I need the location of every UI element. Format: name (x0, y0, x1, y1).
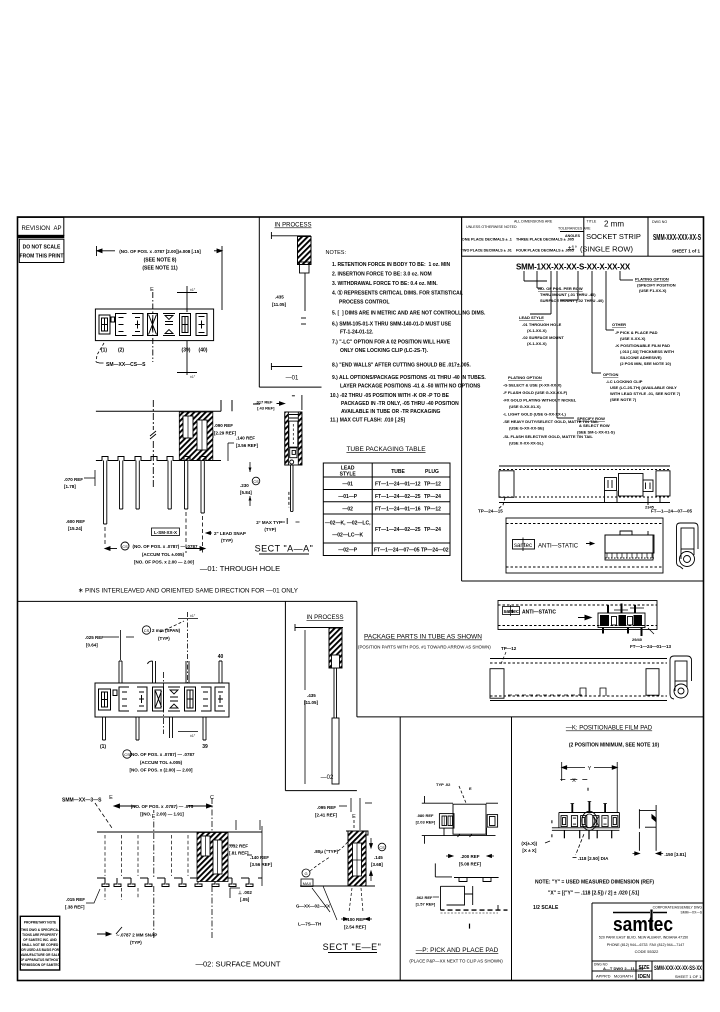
svg-text:.095 REF: .095 REF (317, 805, 336, 810)
-K: pins above (572, 802, 605, 813)
middle-left -02: bottom pins (103, 717, 207, 740)
svg-text:40: 40 (218, 654, 224, 660)
svg-text:(SPECIFY POSITION: (SPECIFY POSITION (637, 283, 676, 288)
svg-text:REVISION AP: REVISION AP (22, 226, 62, 232)
svg-text:2 mm: 2 mm (604, 220, 624, 229)
svg-text:FROM THIS PRINT: FROM THIS PRINT (20, 254, 64, 260)
svg-text:PHONE (812) 944—6733 FAX (812: PHONE (812) 944—6733 FAX (812) 944—7147 (607, 943, 685, 947)
-K: Y dim (562, 762, 618, 812)
svg-text:CS: CS (144, 628, 150, 633)
specify row label (564, 416, 615, 435)
svg-text:.090 REF: .090 REF (214, 423, 233, 428)
svg-text:TUBE PACKAGING TABLE: TUBE PACKAGING TABLE (346, 446, 426, 453)
svg-text:8.) "END WALLS" AFTER CUTTING: 8.) "END WALLS" AFTER CUTTING SHOULD BE … (332, 363, 471, 369)
samtec logo (613, 910, 673, 937)
svg-text:SECT "E—E": SECT "E—E" (323, 942, 382, 952)
svg-text:(TYP): (TYP) (158, 636, 170, 641)
svg-text:(39): (39) (182, 348, 191, 354)
surface mount view: hatched block (197, 833, 228, 882)
surface mount view: part label leader (95, 803, 112, 828)
middle-left -02: cells (99, 687, 226, 711)
svg-text:±1°: ±1° (568, 246, 578, 252)
svg-text:SIZE: SIZE (638, 965, 650, 971)
svg-text:X: X (572, 778, 576, 784)
svg-text:[2.41 REF]: [2.41 REF] (315, 813, 338, 818)
divider V5 (511, 717, 513, 981)
svg-text:ANTI—STATIC: ANTI—STATIC (522, 610, 556, 616)
svg-text:(USE X-XX-X): (USE X-XX-X) (620, 336, 646, 341)
lc option label (603, 372, 681, 402)
bottom title block (592, 903, 704, 981)
svg-text:IN PROCESS: IN PROCESS (306, 615, 343, 621)
svg-text:(.013 [.33] THICKNESS WITH: (.013 [.33] THICKNESS WITH (620, 349, 674, 354)
-K: side view (639, 805, 656, 851)
svg-text:OR USED AS BASIS FOR: OR USED AS BASIS FOR (21, 948, 60, 952)
svg-text:—02: —02 (321, 775, 334, 781)
svg-text:NOTE: "Y" = USED MEASURED DIME: NOTE: "Y" = USED MEASURED DIMENSION (REF… (535, 880, 654, 886)
svg-text:.435: .435 (275, 295, 284, 300)
in-process -01 panel (271, 223, 311, 382)
tube packaging table (323, 463, 450, 556)
svg-text:(NO. OF POS. x .0787) — .0787: (NO. OF POS. x .0787) — .0787 (132, 544, 198, 549)
svg-text:(2 POS MIN, SEE NOTE 10): (2 POS MIN, SEE NOTE 10) (620, 361, 672, 366)
svg-text:LEAD STYLE: LEAD STYLE (519, 315, 544, 320)
front view -01: hatched block (179, 412, 213, 461)
svg-text:(SEE NOTE 7): (SEE NOTE 7) (610, 397, 637, 402)
svg-text:520 PARK EAST BLVD. NEW ALBANY: 520 PARK EAST BLVD. NEW ALBANY, INDIANA … (599, 936, 688, 940)
middle-left -02: bottom angle cross (178, 731, 198, 733)
svg-text:(NO. OF POS. x .0787) — .075: (NO. OF POS. x .0787) — .075 (131, 804, 194, 809)
svg-text:PLATING OPTION: PLATING OPTION (508, 375, 542, 380)
front view -01: dashed pin lines below (105, 512, 203, 553)
svg-text:—02—LC—K: —02—LC—K (332, 533, 363, 539)
svg-text:ANGLES: ANGLES (565, 234, 581, 238)
svg-text:TP—24—02: TP—24—02 (421, 548, 449, 554)
svg-text:—02—P: —02—P (338, 548, 358, 554)
svg-text:SM—XX—CS—S: SM—XX—CS—S (106, 362, 146, 368)
svg-text:(40): (40) (199, 348, 208, 354)
-K: X dim (560, 778, 587, 780)
svg-text:—K: POSITIONABLE FILM PAD: —K: POSITIONABLE FILM PAD (566, 726, 653, 732)
surface mount view: centerlines (154, 798, 212, 940)
svg-text:DO NOT SCALE: DO NOT SCALE (23, 245, 61, 251)
tube drawing 3 with anti-static (498, 601, 657, 630)
svg-text:G: G (304, 871, 307, 876)
svg-text:.600 REF: .600 REF (66, 519, 85, 524)
svg-text:STYLE: STYLE (340, 472, 357, 478)
divider H2 (18, 600, 357, 602)
no of pos label (538, 286, 604, 303)
svg-text:(SEE SM-1-XX-01-S): (SEE SM-1-XX-01-S) (577, 430, 615, 435)
middle-left -02: top pins (119, 661, 222, 683)
svg-text:.230: .230 (240, 483, 249, 488)
svg-text:TIONS ARE PROPERTY: TIONS ARE PROPERTY (22, 933, 59, 937)
svg-text:SMM—XX—3—S: SMM—XX—3—S (62, 798, 102, 804)
sect E-E: right dim (370, 838, 373, 881)
svg-text:∗ PINS INTERLEAVED AND ORIENTE: ∗ PINS INTERLEAVED AND ORIENTED SAME DIR… (78, 588, 298, 595)
front view -01: lead snap label (206, 531, 212, 534)
svg-text:(SINGLE ROW): (SINGLE ROW) (580, 245, 633, 254)
-P panel: .200 dim (446, 854, 494, 857)
svg-text:WITH LEAD STYLE -01, SEE NOTE: WITH LEAD STYLE -01, SEE NOTE 7) (610, 391, 681, 396)
svg-text:.062 REF: .062 REF (416, 895, 433, 900)
middle-left -02: centerline (163, 672, 165, 734)
svg-text:SILICONE ADHESIVE): SILICONE ADHESIVE) (620, 355, 662, 360)
svg-text:NOTES:: NOTES: (326, 250, 347, 256)
svg-text:E: E (152, 814, 156, 820)
-K: left labels (551, 820, 553, 837)
-K: .150 dim (633, 852, 664, 855)
svg-text:(NO. OF POS. x .0787) — .0787: (NO. OF POS. x .0787) — .0787 (129, 752, 195, 757)
-K: cells (561, 816, 618, 827)
svg-text:[X ± X]: [X ± X] (522, 848, 536, 853)
plating option list (503, 375, 599, 446)
svg-text:[15.24]: [15.24] (68, 526, 83, 531)
svg-text:SECT "A—A": SECT "A—A" (255, 544, 314, 554)
svg-text:SURFACE MOUNT (-02 THRU -40): SURFACE MOUNT (-02 THRU -40) (540, 298, 604, 303)
-K: strip front view (552, 813, 620, 831)
svg-text:[3.56 REF]: [3.56 REF] (250, 862, 273, 867)
svg-text:.100 REF: .100 REF (346, 917, 365, 922)
svg-text:(TYP): (TYP) (221, 538, 233, 543)
surface mount view: body (97, 832, 262, 887)
svg-text:[.38 REF]: [.38 REF] (65, 905, 85, 910)
svg-text:-K POSITIONABLE FILM PAD: -K POSITIONABLE FILM PAD (615, 343, 670, 348)
svg-text:E: E (352, 814, 356, 820)
other option label (612, 322, 674, 366)
svg-text:PERMISSION OF SAMTEC: PERMISSION OF SAMTEC (20, 963, 60, 967)
svg-text:—01: —01 (286, 376, 299, 382)
svg-text:[5.84]: [5.84] (240, 490, 252, 495)
svg-text:THRU MOUNT (-01 THRU -40): THRU MOUNT (-01 THRU -40) (540, 292, 596, 297)
svg-text:OF SAMTEC INC. AND: OF SAMTEC INC. AND (23, 938, 57, 942)
svg-text:SHEET 1 OF 1: SHEET 1 OF 1 (675, 974, 702, 979)
svg-text:TP—12: TP—12 (424, 506, 441, 512)
svg-text:SOCKET STRIP: SOCKET STRIP (586, 232, 641, 241)
svg-text:7.) "-LC" OPTION FOR A 02 POSI: 7.) "-LC" OPTION FOR A 02 POSITION WILL … (332, 340, 451, 346)
svg-text:—02: SURFACE MOUNT: —02: SURFACE MOUNT (195, 960, 280, 969)
svg-text:THIS DWG & SPECIFICA-: THIS DWG & SPECIFICA- (21, 928, 59, 932)
svg-text:11.) MAX CUT FLASH: .010 [.25]: 11.) MAX CUT FLASH: .010 [.25] (330, 418, 405, 424)
in-process -02 panel content (295, 615, 344, 784)
svg-text:PACKAGED IN -TR ONLY, -05 THRU: PACKAGED IN -TR ONLY, -05 THRU -40 POSIT… (341, 401, 459, 407)
middle-left -02 top view: cs circle note (142, 626, 180, 641)
svg-text:& SELECT ROW: & SELECT ROW (579, 423, 610, 428)
proprietary note box (20, 916, 61, 970)
svg-text:-P PICK & PLACE PAD: -P PICK & PLACE PAD (615, 330, 658, 335)
svg-text:FT—1—24—02—25: FT—1—24—02—25 (375, 494, 421, 500)
lead style label (519, 315, 564, 346)
svg-text:(NO. OF POS. x .0787 [2.00])±.: (NO. OF POS. x .0787 [2.00])±.008 [.15] (119, 249, 201, 254)
svg-text:[.05]: [.05] (240, 897, 250, 902)
svg-text:PLUG: PLUG (425, 469, 439, 475)
front view -01: body bottom edge with notches (96, 457, 221, 461)
svg-text:[5.08 REF]: [5.08 REF] (459, 862, 482, 867)
svg-text:3. WITHDRAWAL FORCE TO BE: 0.4: 3. WITHDRAWAL FORCE TO BE: 0.4 oz. MIN. (332, 281, 438, 287)
svg-text:2 mm (SPAN): 2 mm (SPAN) (152, 628, 181, 633)
svg-text:Y: Y (588, 766, 592, 772)
svg-text:—01: THROUGH HOLE: —01: THROUGH HOLE (200, 564, 280, 573)
svg-text:IN PROCESS: IN PROCESS (274, 223, 311, 229)
svg-text:L-SM-XX-X: L-SM-XX-X (154, 530, 177, 535)
svg-text:OPTION: OPTION (603, 372, 618, 377)
svg-text:SPECIFY ROW: SPECIFY ROW (577, 416, 605, 421)
-K: film pad circle (582, 811, 597, 830)
dark connectors in tube 3 (598, 604, 645, 637)
surface mount view: snap note (97, 927, 122, 936)
svg-text:—02: —02 (342, 506, 353, 512)
svg-text:TITLE: TITLE (587, 220, 597, 224)
svg-text:NO. OF POS. PER ROW: NO. OF POS. PER ROW (538, 286, 583, 291)
tube drawing 4 (lower) (490, 659, 667, 701)
svg-text:UNLESS OTHERWISE NOTED: UNLESS OTHERWISE NOTED (466, 225, 517, 229)
svg-text:CODE 55322: CODE 55322 (635, 949, 660, 954)
tube drawing 1 (top right) (498, 466, 670, 509)
svg-text:TP—12: TP—12 (424, 482, 441, 488)
svg-text:±1°: ±1° (190, 614, 196, 618)
svg-text:.140 REF: .140 REF (250, 855, 269, 860)
svg-text:E: E (150, 287, 154, 293)
main border frame (18, 217, 704, 981)
svg-text:USE (LC-2S-TH) (AVAILABLE ONLY: USE (LC-2S-TH) (AVAILABLE ONLY (610, 385, 677, 390)
tube 4 end clip (670, 656, 692, 699)
svg-text:.435: .435 (307, 693, 316, 698)
svg-text:SHEET 1 of 1: SHEET 1 of 1 (672, 249, 701, 254)
svg-text:APPR'D McGRATH: APPR'D McGRATH (596, 974, 633, 979)
svg-text:FT—1—24—07—05: FT—1—24—07—05 (374, 548, 420, 554)
connector inside tube 2 (605, 531, 654, 560)
top view -01: leader to SM-XX-CS-S (96, 343, 104, 362)
svg-text:FOUR PLACE DECIMALS ± .0005: FOUR PLACE DECIMALS ± .0005 (516, 248, 575, 253)
svg-text:.145: .145 (374, 855, 383, 860)
svg-text:tec: tec (524, 543, 532, 549)
notes column (326, 250, 487, 424)
middle-left -02: angle dim (160, 612, 198, 683)
svg-text:PLATING OPTION: PLATING OPTION (635, 277, 669, 282)
svg-text:TP—12: TP—12 (501, 646, 517, 651)
svg-text:.032 REF: .032 REF (229, 844, 248, 849)
-P panel: top view drawing (422, 796, 498, 844)
svg-text:AVAILABLE IN TUBE OR -TR PACKA: AVAILABLE IN TUBE OR -TR PACKAGING (341, 409, 441, 415)
svg-text:FT—1—24—02—25: FT—1—24—02—25 (375, 527, 421, 533)
svg-text:[11.05]: [11.05] (304, 700, 319, 705)
in-process -01 panel bottom (259, 386, 321, 388)
svg-text:[.43 REF]: [.43 REF] (257, 406, 275, 411)
-P panel: profile drawing (435, 863, 507, 913)
svg-text:±1°: ±1° (190, 734, 196, 738)
middle-left -02: bottom cs note (123, 750, 195, 773)
in-process -01 panel left (258, 217, 260, 387)
divider V1 right title column (461, 217, 463, 581)
svg-text:ONE PLACE DECIMALS ± .1: ONE PLACE DECIMALS ± .1 (462, 237, 513, 242)
svg-text:SMM-XXX-XXX-XX-S: SMM-XXX-XXX-XX-S (653, 233, 701, 242)
middle-left -02: body (95, 683, 229, 717)
samtec anti-static label 1 (513, 538, 595, 552)
svg-text:(ACCUM TOL ±.005): (ACCUM TOL ±.005) (140, 760, 183, 765)
svg-text:2" LEAD SNAP: 2" LEAD SNAP (214, 531, 246, 536)
svg-text:PACKAGE PARTS IN TUBE AS SHOWN: PACKAGE PARTS IN TUBE AS SHOWN (364, 634, 482, 641)
do not scale box (19, 239, 64, 262)
svg-text:MAX: MAX (303, 881, 312, 886)
top view -01: body (95, 309, 213, 341)
svg-text:1/2 SCALE: 1/2 SCALE (533, 905, 559, 911)
svg-text:±1°: ±1° (190, 288, 196, 292)
svg-text:-01 THROUGH HOLE: -01 THROUGH HOLE (522, 322, 562, 327)
front view -01: cs circle + .230 dim (240, 462, 260, 506)
svg-text:.017 REF: .017 REF (256, 400, 273, 405)
sect A-A view (277, 395, 302, 511)
divider V2 in-process panel left (284, 601, 286, 790)
svg-text:.080 REF: .080 REF (417, 813, 434, 818)
svg-text:[2.29 REF]: [2.29 REF] (214, 431, 237, 436)
svg-text:-FX GOLD PLATING WITHOUT NICKE: -FX GOLD PLATING WITHOUT NICKEL (503, 398, 577, 403)
svg-text:CS: CS (253, 479, 259, 484)
svg-text:TP—24: TP—24 (424, 494, 441, 500)
svg-text:FT—1—24—07—05: FT—1—24—07—05 (651, 509, 693, 514)
title block top right (462, 217, 704, 256)
svg-text:—P: PICK AND PLACE PAD: —P: PICK AND PLACE PAD (416, 947, 499, 954)
svg-text:L—7S—TH: L—7S—TH (298, 922, 321, 927)
svg-text:(SEE NOTE 8): (SEE NOTE 8) (144, 258, 177, 264)
svg-text:TUBE: TUBE (391, 469, 405, 475)
svg-text:-G SELECT & USE (X-XX-XX-X): -G SELECT & USE (X-XX-XX-X) (503, 383, 562, 388)
svg-text:[1.78]: [1.78] (64, 484, 76, 489)
svg-text:[.81 REF]: [.81 REF] (229, 851, 249, 856)
svg-text:TYP .02: TYP .02 (436, 782, 451, 787)
svg-text:.80μ ("TYP): .80μ ("TYP) (314, 849, 339, 854)
svg-text:(SEE NOTE 11): (SEE NOTE 11) (142, 266, 178, 272)
svg-text:(USE F1-XX-X): (USE F1-XX-X) (639, 288, 667, 293)
svg-text:FT—1—24—01—16: FT—1—24—01—16 (375, 506, 421, 512)
svg-text:(USE X-XX-XX-SL): (USE X-XX-XX-SL) (509, 441, 544, 446)
svg-text:[0.64]: [0.64] (86, 643, 98, 648)
svg-text:(TYP): (TYP) (130, 940, 142, 945)
svg-text:ANTI—STATIC: ANTI—STATIC (538, 544, 579, 550)
svg-text:.140 REF: .140 REF (236, 436, 255, 441)
top view -01: dimension text (97, 246, 223, 310)
-K: dia leader (576, 834, 584, 855)
svg-text:1. RETENTION FORCE IN BODY TO: 1. RETENTION FORCE IN BODY TO BE: 1 oz. … (332, 262, 451, 268)
svg-text:[3.56 REF]: [3.56 REF] (236, 443, 259, 448)
svg-text:5. [ ] DIMS ARE IN METRIC AND: 5. [ ] DIMS ARE IN METRIC AND ARE NOT CO… (332, 311, 486, 317)
sect E-E: bottom leaders and labels (312, 886, 363, 920)
svg-text:9.) ALL OPTIONS/PACKAGE POSITI: 9.) ALL OPTIONS/PACKAGE POSITIONS -01 TH… (332, 375, 486, 381)
svg-text:(2 POSITION MINIMUM, SEE NOTE: (2 POSITION MINIMUM, SEE NOTE 10) (569, 743, 660, 749)
svg-text:-LC LOCKING CLIP: -LC LOCKING CLIP (606, 379, 643, 384)
svg-text:tec: tec (512, 609, 519, 615)
svg-text:E: E (109, 795, 113, 801)
svg-text:[1.57 REF]: [1.57 REF] (416, 902, 436, 907)
front view -01: bottom dim note (105, 542, 205, 550)
top view -01: second vertical line (186, 341, 188, 375)
svg-text:2° MAX TYP: 2° MAX TYP (256, 520, 282, 525)
leader ticks under part number (524, 271, 633, 418)
svg-text:(X-1-XX-X): (X-1-XX-X) (527, 328, 547, 333)
revision box (18, 217, 64, 237)
svg-text:FT—1—24—01—12: FT—1—24—01—12 (375, 482, 421, 488)
svg-text:.025 REF: .025 REF (85, 635, 104, 640)
svg-text:6.) SMM-105-01-X THRU SMM-140-: 6.) SMM-105-01-X THRU SMM-140-01-D MUST … (332, 322, 452, 328)
top view -01: contact cells (99, 314, 207, 336)
svg-text:FT—1—24—01—13: FT—1—24—01—13 (630, 644, 672, 649)
sect E-E: socket section (300, 831, 375, 886)
svg-text:SMM-1XX-XX-XX-S-XX-X-XX-XX: SMM-1XX-XX-XX-S-XX-X-XX-XX (516, 263, 631, 272)
svg-text:39: 39 (202, 744, 208, 750)
svg-text:PROPRIETARY NOTE: PROPRIETARY NOTE (24, 921, 56, 925)
plating option (top right) label (635, 277, 676, 294)
svg-text:-02 SURFACE MOUNT: -02 SURFACE MOUNT (522, 335, 564, 340)
svg-text:IDEN: IDEN (638, 974, 650, 980)
svg-text:.150 [3.81]: .150 [3.81] (664, 852, 686, 857)
svg-text:(ACCUM TOL ±.005): (ACCUM TOL ±.005) (142, 552, 185, 557)
svg-text:(POSITION PARTS WITH POS. #1 T: (POSITION PARTS WITH POS. #1 TOWARD ARRO… (358, 645, 491, 650)
svg-text:SMM—XX—S: SMM—XX—S (681, 911, 703, 915)
svg-text:TP—24: TP—24 (424, 527, 441, 533)
svg-text:29/40: 29/40 (632, 637, 643, 642)
svg-text:samtec: samtec (613, 914, 673, 936)
tube drawing 2 (middle right) (506, 518, 663, 573)
divider V4 (399, 717, 401, 981)
svg-text:TP—24—15: TP—24—15 (478, 509, 503, 514)
svg-text:.015 REF: .015 REF (66, 897, 85, 902)
svg-text:CS: CS (122, 544, 128, 549)
svg-text:⊥ .002: ⊥ .002 (238, 890, 252, 895)
front view -01: centerline with break (150, 400, 156, 487)
top view -01: tolerance cross top (177, 286, 197, 312)
svg-text:(1): (1) (100, 744, 106, 750)
svg-text:SHALL NOT BE COPIED: SHALL NOT BE COPIED (22, 943, 59, 947)
svg-text:MANUFACTURE OR SALE: MANUFACTURE OR SALE (20, 953, 60, 957)
svg-text:(2): (2) (118, 348, 124, 354)
divider H1 (462, 580, 704, 582)
svg-text:.118 [2.50] DIA: .118 [2.50] DIA (578, 856, 609, 861)
svg-text:-F FLASH GOLD (USE G-XX-XX-F): -F FLASH GOLD (USE G-XX-XX-F) (503, 390, 568, 395)
svg-text:-SL FLASH SELECTIVE GOLD, MATT: -SL FLASH SELECTIVE GOLD, MATTE TIN TAIL (503, 434, 593, 439)
svg-text:(USE G-XX-01-X): (USE G-XX-01-X) (509, 404, 541, 409)
svg-text:±1°: ±1° (190, 375, 196, 379)
svg-text:ONLY ONE LOCKING CLIP (LC-2S-T: ONLY ONE LOCKING CLIP (LC-2S-T). (340, 348, 429, 354)
svg-text:—01: —01 (342, 482, 353, 488)
svg-text:"X" = [("Y" — .118 [2.5]) / 2]: "X" = [("Y" — .118 [2.5]) / 2] ± .020 [.… (548, 891, 640, 897)
divider V3 (356, 601, 358, 717)
svg-text:DWG NO: DWG NO (652, 220, 667, 224)
in-process -02 panel bottom (285, 790, 357, 792)
svg-text:2. INSERTION FORCE TO BE: 3.0: 2. INSERTION FORCE TO BE: 3.0 oz. NOM (332, 272, 432, 278)
surface mount view: inner pin dashes (105, 835, 188, 900)
svg-text:[2.54 REF]: [2.54 REF] (344, 925, 367, 930)
svg-text:[NO. OF POS. x 2.00 — 2.00]: [NO. OF POS. x 2.00 — 2.00] (134, 560, 195, 565)
svg-text:TWO PLACE DECIMALS ± .01: TWO PLACE DECIMALS ± .01 (461, 248, 513, 253)
front view -01: pins (104, 461, 205, 525)
surface mount view: top dim (114, 804, 212, 808)
svg-text:E: E (469, 786, 472, 791)
svg-text:(TYP): (TYP) (264, 527, 276, 532)
svg-text:(USE G-XX-XX-SE): (USE G-XX-XX-SE) (509, 426, 545, 431)
svg-text:[NO. OF POS. x (2.00) — 2.00]: [NO. OF POS. x (2.00) — 2.00] (129, 768, 193, 773)
-K: pins below (564, 830, 611, 839)
svg-text:(1): (1) (101, 348, 107, 354)
svg-text:LAYER PACKAGE POSITIONS -41 &: LAYER PACKAGE POSITIONS -41 & -50 WITH N… (340, 384, 481, 390)
svg-text:-L LIGHT GOLD (USE G-XX-XX-L): -L LIGHT GOLD (USE G-XX-XX-L) (503, 412, 566, 417)
svg-text:FT-1-24-01-12.: FT-1-24-01-12. (340, 330, 374, 336)
svg-text:OTHER: OTHER (612, 322, 626, 327)
svg-text:OF APPARATUS WITHOUT: OF APPARATUS WITHOUT (20, 958, 60, 962)
svg-text:CS: CS (379, 845, 385, 850)
svg-text:ALL DIMENSIONS ARE: ALL DIMENSIONS ARE (514, 220, 553, 224)
svg-text:∼.0787 2 MM SNAP: ∼.0787 2 MM SNAP (116, 933, 157, 938)
svg-text:TOLERANCES ARE: TOLERANCES ARE (558, 227, 591, 231)
svg-text:(X-1-XX-X): (X-1-XX-X) (527, 341, 547, 346)
